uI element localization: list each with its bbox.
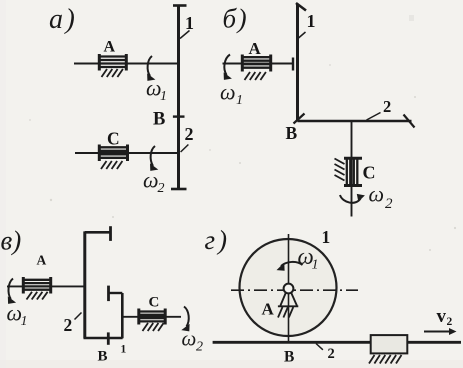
- label omega1 (panel a): [146, 76, 167, 105]
- label 1 (panel v): [121, 344, 127, 356]
- label v2 (panel g): [437, 306, 453, 328]
- link 2 bottom arm (panel v): [84, 337, 123, 340]
- shaft of wheel A (panel a): [74, 63, 179, 65]
- svg-text:B: B: [284, 349, 294, 366]
- label C (panel v): [149, 295, 160, 311]
- svg-text:ω: ω: [369, 182, 385, 207]
- bottom cap of bar (panel a): [171, 188, 187, 191]
- svg-text:ω: ω: [143, 168, 159, 193]
- svg-text:б): б): [223, 4, 247, 34]
- svg-text:A: A: [37, 253, 47, 268]
- omega1 rotation arrow (panel v): [8, 279, 16, 304]
- faint scanner tint left edge: [0, 0, 6, 368]
- corner slash at B (panel b): [294, 114, 305, 124]
- ground hatch under bearing A (panel b): [245, 72, 266, 80]
- bearing A (panel b): [242, 55, 270, 72]
- top slash cap (panel b): [296, 3, 306, 11]
- label omega2 (panel v): [182, 327, 204, 355]
- bearing C (panel v): [139, 309, 165, 325]
- label 2 with leader (panel b): [367, 97, 392, 120]
- label 2 with leader (panel v): [64, 313, 82, 336]
- svg-text:1: 1: [312, 258, 319, 273]
- vertical shaft of C (panel b): [351, 121, 353, 217]
- top arm end tick (panel v): [109, 226, 112, 241]
- svg-text:1: 1: [307, 11, 316, 31]
- faint scanner tint bottom edge: [0, 360, 463, 368]
- svg-text:B: B: [286, 123, 298, 143]
- link 1 vertical bar (panel a): [177, 6, 180, 190]
- svg-text:а): а): [49, 4, 75, 35]
- svg-text:2: 2: [196, 340, 203, 355]
- pin support base line (panel g): [278, 305, 298, 307]
- svg-text:B: B: [98, 349, 108, 365]
- end tick of shaft A (panel b): [292, 58, 294, 71]
- ground hatch under bearing C (panel a): [101, 161, 122, 169]
- svg-text:C: C: [363, 163, 376, 183]
- shaft of wheel A (panel b): [223, 63, 294, 65]
- label 1 (panel g): [322, 227, 331, 247]
- label 1 with leader (panel b): [299, 11, 316, 38]
- bearing C (panel a): [99, 145, 127, 162]
- label 2 with leader (panel g): [316, 344, 335, 363]
- bearing A (panel v): [23, 277, 50, 294]
- label A (panel a): [104, 39, 116, 56]
- vertical center line (panel g): [288, 234, 290, 342]
- omega1 rotation arrow (panel a): [147, 56, 155, 81]
- shaft of wheel A (panel v): [7, 285, 85, 287]
- bearing C vertical (panel b): [344, 158, 362, 185]
- svg-text:1: 1: [185, 13, 194, 33]
- label A (panel g): [262, 300, 275, 319]
- ground hatch left of bearing C (panel b): [335, 159, 345, 181]
- label B (panel v): [98, 349, 108, 365]
- svg-text:ω: ω: [220, 80, 236, 105]
- label 2 with leader (panel a): [181, 124, 194, 152]
- svg-text:B: B: [153, 110, 165, 130]
- wheel 1 circle (panel g): [240, 239, 337, 336]
- label B (panel g): [284, 349, 294, 366]
- label 1 with leader (panel a): [180, 13, 194, 39]
- ground hatch under bearing A (panel v): [27, 292, 48, 300]
- label B (panel a): [153, 110, 165, 130]
- svg-text:v: v: [437, 306, 447, 327]
- svg-text:1: 1: [322, 227, 331, 247]
- svg-text:ω: ω: [182, 327, 197, 351]
- label B (panel b): [286, 123, 298, 143]
- label omega2 (panel b): [369, 182, 394, 213]
- pin support legs (panel g): [280, 293, 297, 306]
- svg-text:1: 1: [121, 344, 127, 356]
- slider B tick (panel v): [107, 332, 110, 344]
- link 1 vertical bar (panel v): [121, 293, 124, 338]
- panel label b): [223, 4, 247, 34]
- ground hatch under bearing A (panel a): [102, 69, 123, 77]
- ground hatch under slider (panel g): [369, 355, 402, 364]
- omega1 rotation arrow (panel b): [224, 55, 232, 80]
- panel label a): [49, 4, 75, 35]
- link 1 end tick (panel v): [107, 286, 110, 302]
- svg-text:2: 2: [158, 181, 165, 196]
- omega2 rotation arrow (panel a): [150, 146, 158, 171]
- shaft of wheel C (panel a): [75, 152, 179, 154]
- svg-text:1: 1: [236, 93, 243, 108]
- dash-dot center line (panel g): [231, 289, 358, 291]
- omega2 rotation arrow (panel b): [340, 194, 365, 203]
- joint B tick (panel a): [173, 115, 185, 117]
- svg-text:A: A: [104, 39, 116, 56]
- label A (panel b): [249, 39, 262, 58]
- faint speckles: [29, 15, 456, 251]
- panel label v): [1, 226, 22, 256]
- omega1 rotation arrow (panel g): [277, 262, 303, 271]
- top cap of bar (panel a): [173, 4, 187, 7]
- label C (panel a): [107, 128, 120, 148]
- svg-text:2: 2: [328, 346, 335, 362]
- label omega1 (panel b): [220, 80, 243, 109]
- svg-text:C: C: [107, 128, 120, 148]
- end slash of link 2 (panel b): [404, 115, 415, 128]
- svg-text:2: 2: [383, 97, 391, 116]
- svg-text:A: A: [249, 39, 262, 58]
- link 2 top arm (panel v): [85, 231, 110, 234]
- svg-text:2: 2: [447, 316, 453, 328]
- omega2 rotation arrow (panel v): [181, 307, 189, 332]
- label omega1 (panel g): [298, 244, 319, 273]
- svg-text:1: 1: [21, 314, 28, 329]
- label omega1 (panel v): [7, 301, 28, 330]
- svg-text:1: 1: [160, 89, 167, 104]
- svg-text:A: A: [262, 300, 275, 319]
- label A (panel v): [37, 253, 47, 268]
- velocity arrow v2 (panel g): [424, 328, 457, 335]
- link 2 horizontal bar (panel b): [298, 120, 412, 123]
- link 2 vertical bar (panel v): [83, 231, 86, 338]
- ground hatch under bearing C (panel v): [143, 323, 164, 331]
- link 1 top arm (panel v): [109, 292, 123, 294]
- svg-text:2: 2: [185, 124, 194, 144]
- pin support hatch (panel g): [278, 307, 293, 318]
- label C (panel b): [363, 163, 376, 183]
- label omega2 (panel a): [143, 168, 165, 197]
- panel label g): [205, 225, 228, 255]
- svg-text:2: 2: [64, 315, 73, 335]
- link 1 vertical bar (panel b): [296, 4, 299, 121]
- svg-text:в): в): [1, 226, 22, 256]
- bearing A (panel a): [99, 54, 126, 71]
- svg-text:2: 2: [385, 196, 393, 212]
- shaft of wheel C (panel v): [122, 316, 181, 318]
- pin joint circle at A (panel g): [284, 284, 294, 294]
- rail link 2 (panel g): [213, 341, 461, 344]
- slider block (panel g): [371, 335, 408, 353]
- svg-text:C: C: [149, 295, 160, 311]
